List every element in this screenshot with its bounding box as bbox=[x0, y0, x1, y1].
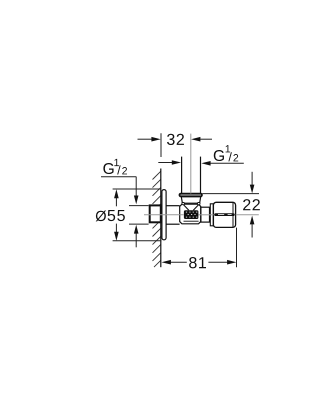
wall thread block G1/2 bbox=[150, 205, 161, 222]
wall line bbox=[160, 169, 162, 268]
escutcheon plate bbox=[162, 190, 166, 240]
dim 81 text bbox=[189, 257, 206, 268]
dim 32 text bbox=[167, 134, 184, 145]
nut feet bbox=[182, 203, 185, 205]
dim Ø55 line + arrows bbox=[114, 189, 119, 241]
dim 32 extension line left bbox=[160, 133, 162, 157]
G 1/2 label right text bbox=[214, 145, 238, 161]
vertical pipe bbox=[182, 157, 201, 194]
G 1/2 left underline bbox=[101, 176, 136, 178]
dim 22 leaders + arrows bbox=[250, 172, 255, 238]
dim 81 line + arrows bbox=[162, 260, 237, 265]
handle end ring bbox=[232, 202, 234, 227]
funnel transition bbox=[183, 204, 199, 210]
G 1/2 label right leader bbox=[210, 162, 244, 164]
center line vertical (pipe axis) bbox=[190, 134, 192, 194]
body tube bbox=[166, 206, 180, 225]
handle slot bbox=[214, 213, 235, 216]
dim 22 text bbox=[243, 199, 260, 210]
dim Ø55 text bbox=[96, 210, 125, 221]
dim 32 line + arrows bbox=[138, 137, 213, 142]
handle stem bbox=[201, 207, 210, 222]
knurled band bbox=[184, 210, 199, 219]
center line horizontal bbox=[144, 214, 259, 216]
G 1/2 label left text bbox=[103, 159, 127, 175]
dim Ø55 extension lines bbox=[113, 188, 162, 190]
G 1/2 left leader down arrow bbox=[135, 177, 137, 196]
pipe OD pointer left bbox=[158, 162, 172, 164]
dim 81 extension line right bbox=[236, 228, 238, 268]
compression nut trapezoid bbox=[181, 197, 200, 203]
G 1/2 left leader up arrow bbox=[135, 233, 137, 247]
line under knurl bbox=[184, 220, 199, 222]
handle collar bbox=[210, 204, 213, 226]
thread extension lines bbox=[129, 205, 149, 207]
wall hatch bbox=[153, 171, 161, 267]
dim 22 extension line top bbox=[202, 193, 259, 195]
compression nut cap bar bbox=[180, 194, 202, 197]
valve body block bbox=[180, 204, 201, 224]
handle cap bbox=[213, 202, 235, 227]
